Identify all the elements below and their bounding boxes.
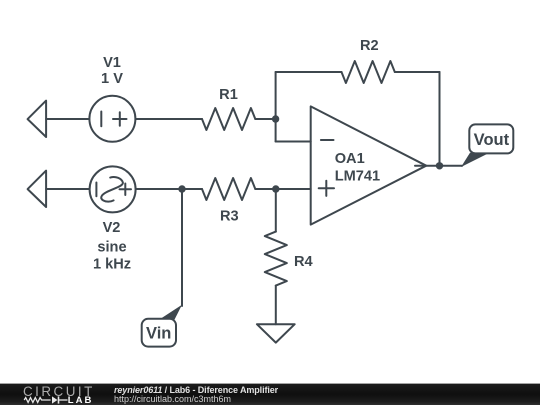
svg-text:Vin: Vin: [146, 324, 171, 342]
svg-text:R4: R4: [294, 254, 314, 270]
svg-text:http://circuitlab.com/c3mth6m: http://circuitlab.com/c3mth6m: [114, 394, 231, 404]
svg-text:1 V: 1 V: [101, 71, 123, 87]
svg-text:sine: sine: [97, 240, 126, 256]
svg-text:1 kHz: 1 kHz: [93, 257, 131, 273]
svg-text:LAB: LAB: [68, 395, 94, 405]
svg-text:R1: R1: [219, 87, 238, 103]
svg-text:V1: V1: [103, 55, 121, 71]
svg-text:V2: V2: [103, 220, 121, 236]
svg-text:R3: R3: [220, 209, 239, 225]
svg-text:OA1: OA1: [335, 151, 365, 167]
svg-text:LM741: LM741: [335, 169, 380, 185]
svg-text:Vout: Vout: [474, 131, 510, 149]
svg-text:R2: R2: [360, 38, 379, 54]
